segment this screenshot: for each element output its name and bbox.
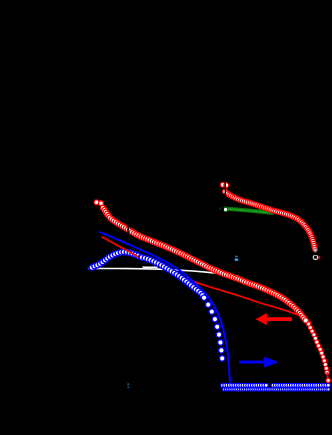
inset black axis stripe — [225, 181, 226, 197]
blue fit line — [100, 232, 230, 384]
inset red marker curve — [225, 191, 317, 251]
blue curve leftmost dot — [87, 267, 90, 270]
inset green thick line — [222, 208, 272, 212]
inset start markers — [220, 182, 225, 187]
inset terminal open marker — [313, 255, 317, 259]
inset green line core — [224, 209, 270, 213]
inset terminal red tick — [319, 256, 321, 259]
inset terminal gray marker — [313, 248, 317, 252]
red fit line — [102, 237, 310, 322]
red final marker — [326, 378, 330, 382]
black tick over red band — [127, 225, 128, 235]
red data marker curve dense part — [100, 205, 308, 323]
white line overlap segment — [143, 266, 157, 268]
blue data marker hump (drawn early) — [89, 249, 144, 270]
cyan colon fragment — [235, 256, 238, 261]
red data marker curve sparse tail — [306, 322, 329, 375]
white separatrix line — [94, 268, 238, 276]
bottom blue marker band row 1 — [221, 383, 331, 387]
blue arrow pointing right — [239, 357, 279, 368]
red curve start markers — [94, 200, 99, 205]
red arrow pointing left — [256, 313, 293, 325]
red curve tail line — [326, 373, 329, 381]
blue data marker curve — [139, 255, 225, 362]
inset green line end marker — [223, 207, 227, 211]
dark blue colon fragment — [127, 383, 129, 388]
bottom blue marker band row 2 — [222, 388, 330, 391]
black cap over green marker — [221, 206, 224, 214]
